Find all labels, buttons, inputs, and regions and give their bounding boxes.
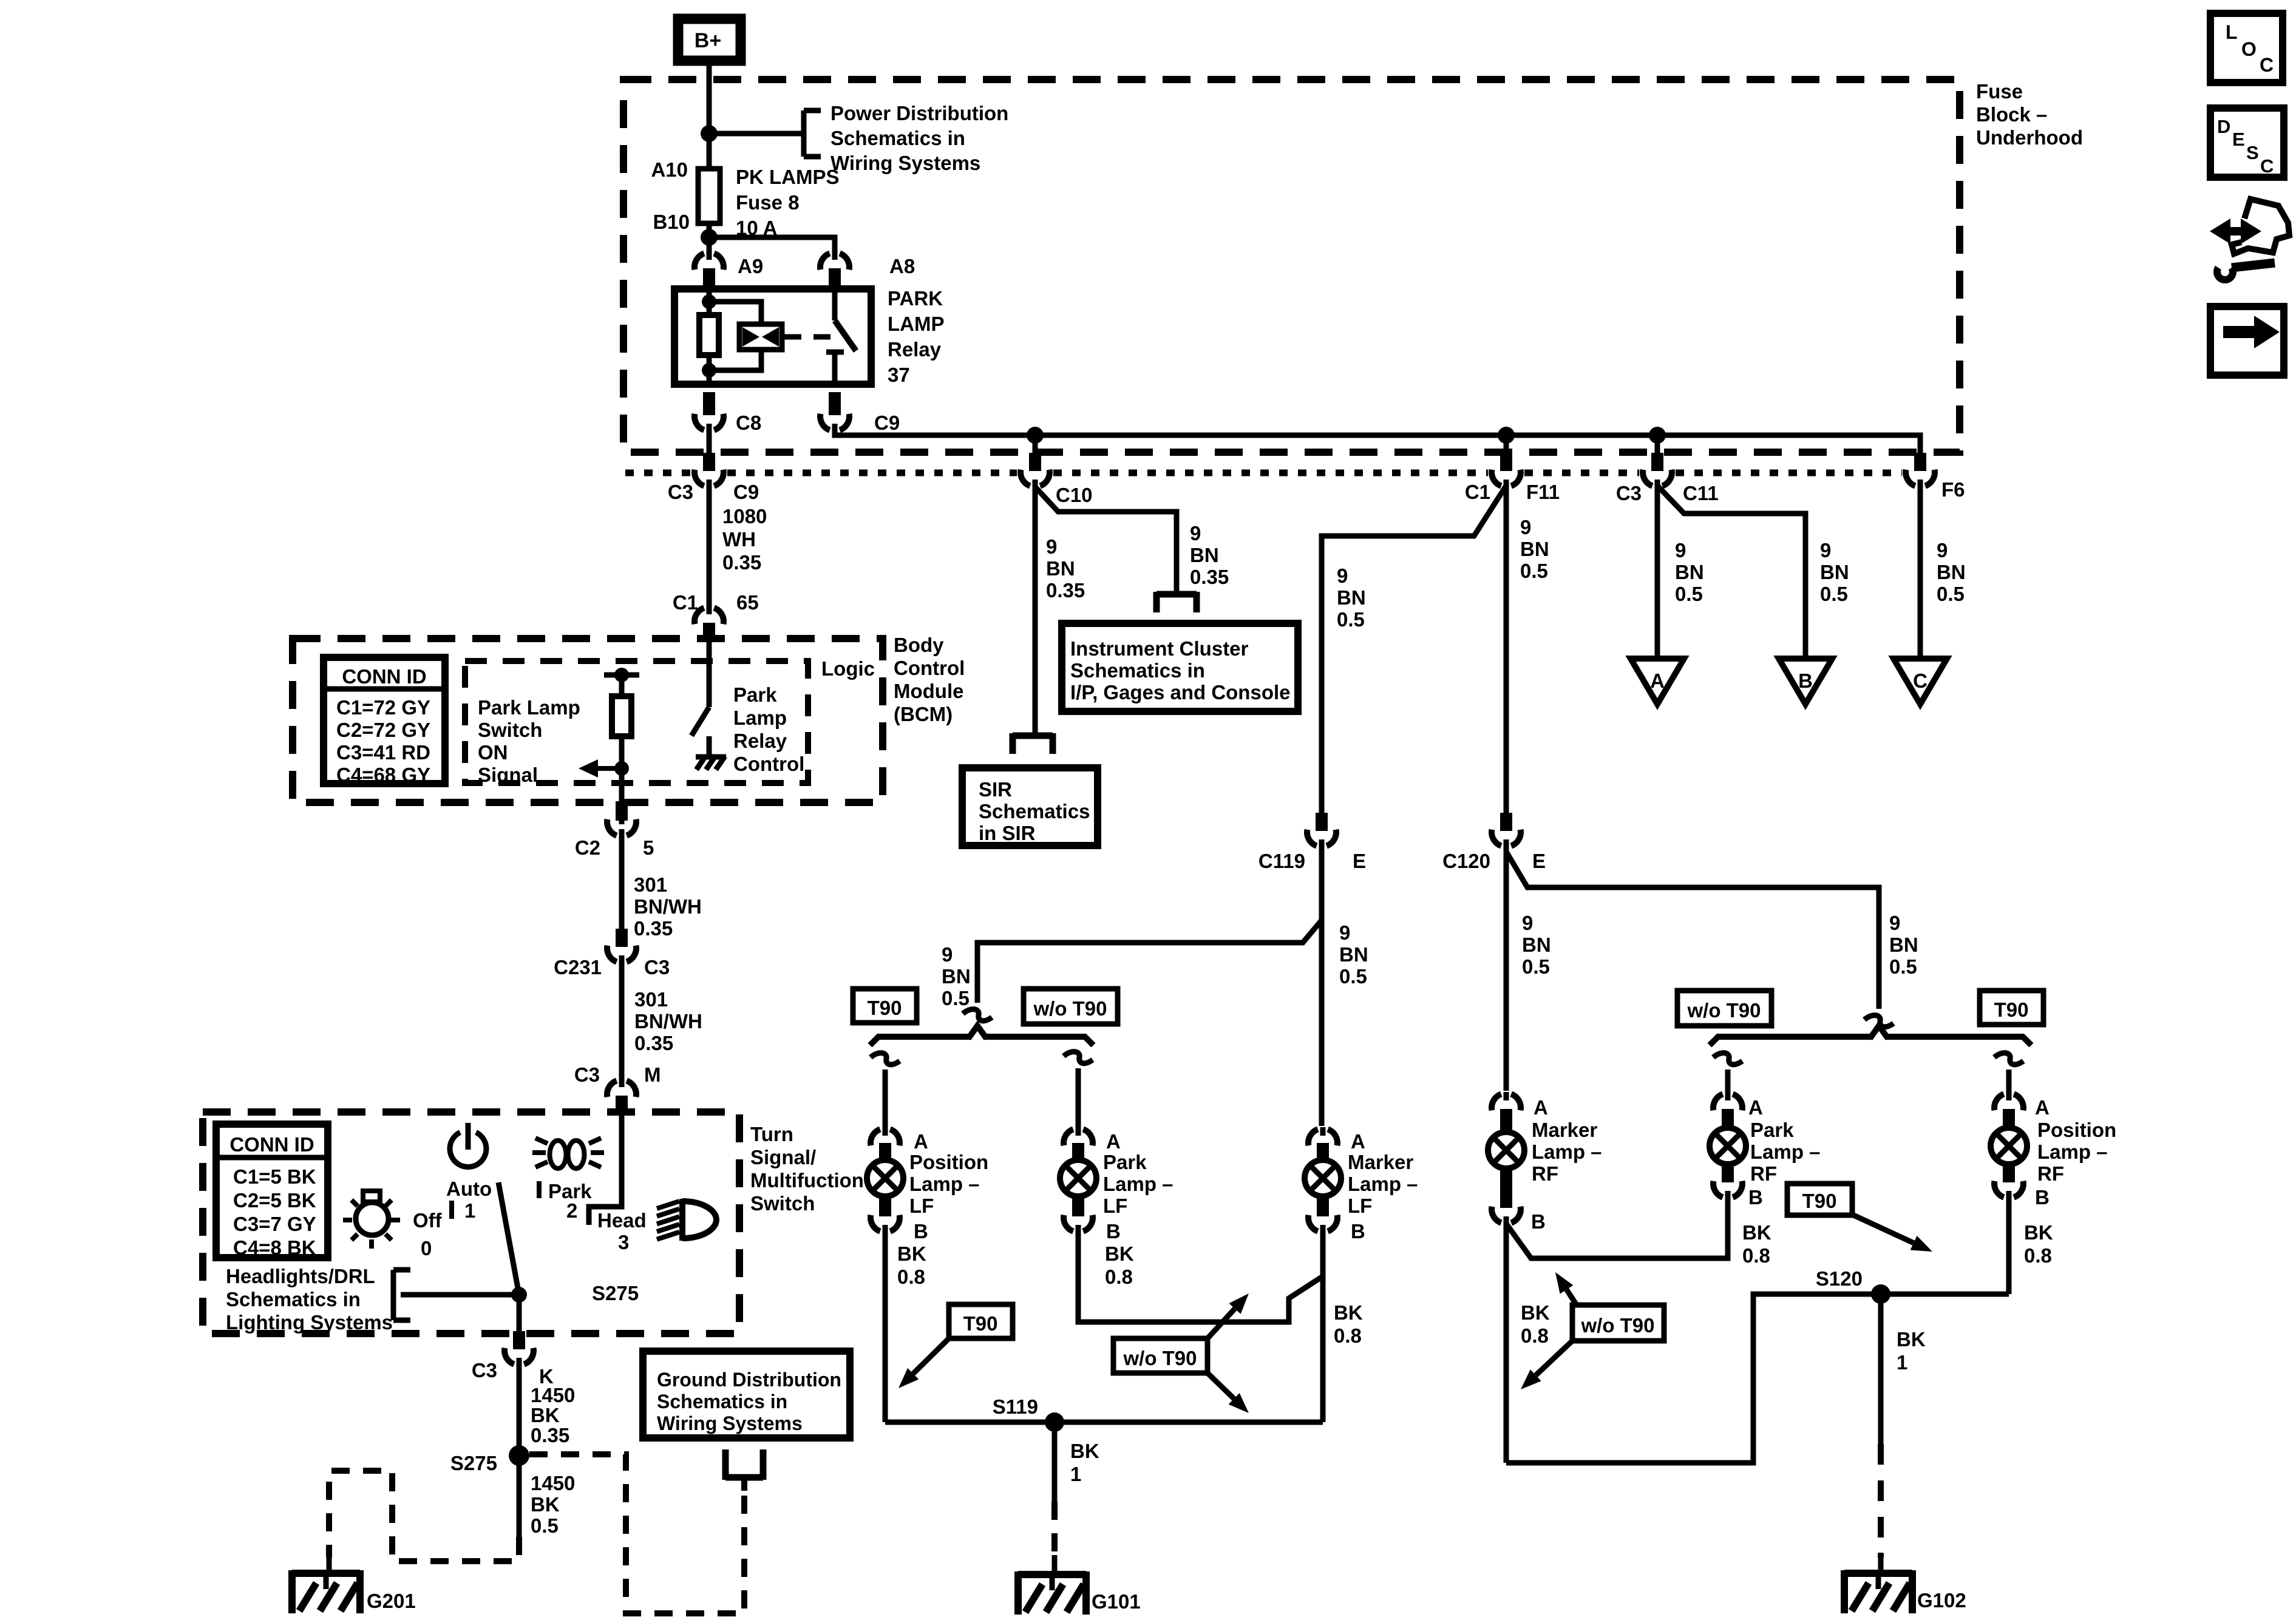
wire C11 to triangle B [1657, 486, 1805, 659]
connector park RF pin A [1713, 1094, 1723, 1110]
svg-text:C1: C1 [673, 591, 698, 614]
svg-text:A: A [1748, 1096, 1763, 1119]
fork to SIR box [1013, 733, 1053, 739]
svg-text:C3=41 RD: C3=41 RD [336, 741, 430, 764]
wire position RF to S120 [2006, 1198, 2012, 1294]
svg-text:T90: T90 [1802, 1190, 1837, 1212]
svg-text:B: B [2035, 1186, 2050, 1209]
svg-text:Headlights/DRL: Headlights/DRL [226, 1265, 375, 1287]
svg-text:A: A [1650, 670, 1665, 692]
connector C10 [1021, 470, 1030, 486]
svg-text:BN: BN [942, 965, 971, 988]
marker lamp LF [1317, 1143, 1329, 1164]
svg-text:BK: BK [1897, 1328, 1926, 1351]
relay coil [739, 324, 782, 350]
svg-text:9: 9 [942, 943, 953, 966]
LOC legend icon [2210, 13, 2283, 83]
node signal junction [614, 761, 629, 776]
svg-text:BK: BK [1105, 1242, 1134, 1265]
service manual hand icon [2230, 227, 2248, 236]
svg-text:Control: Control [894, 657, 965, 679]
svg-text:0.5: 0.5 [1522, 955, 1550, 978]
svg-text:Multifuction: Multifuction [750, 1169, 864, 1192]
svg-text:2: 2 [566, 1199, 577, 1222]
node relay coil top junction [702, 294, 716, 309]
svg-text:Module: Module [894, 680, 963, 702]
wire C120 to marker lamp RF [1504, 847, 1509, 1091]
connector pin C8 [695, 414, 704, 430]
svg-text:9: 9 [1190, 522, 1201, 544]
svg-text:B: B [1351, 1220, 1365, 1242]
svg-text:Switch: Switch [478, 719, 542, 741]
instrument cluster reference box [1062, 623, 1298, 711]
svg-text:BK: BK [1334, 1301, 1363, 1324]
fuse F8 PK LAMPS [698, 169, 720, 223]
svg-text:Lamp –: Lamp – [1750, 1141, 1821, 1163]
svg-text:in SIR: in SIR [979, 822, 1036, 844]
svg-text:C119: C119 [1258, 850, 1305, 872]
dashed wire to G101 [1051, 1502, 1058, 1560]
svg-text:Relay: Relay [888, 338, 942, 361]
battery feed B+ terminal [678, 19, 741, 61]
T90 pointer arrow right [1852, 1215, 1914, 1243]
T90 pointer box left [949, 1304, 1013, 1338]
ground G101 [1018, 1571, 1086, 1578]
wire F11 to C120 [1504, 486, 1509, 815]
svg-text:Relay: Relay [733, 730, 787, 752]
park lamp switch pull-up bar [604, 673, 639, 678]
position lamp RF [2003, 1111, 2015, 1131]
svg-text:1: 1 [464, 1199, 475, 1222]
svg-text:301: 301 [634, 988, 668, 1011]
wire to park lamp LF [1076, 1068, 1081, 1130]
connector park LF pin B [1064, 1215, 1073, 1232]
T90 pointer arrow left [913, 1338, 949, 1374]
svg-text:RF: RF [1750, 1162, 1777, 1185]
dashed wire to G102 [1878, 1444, 1884, 1558]
svg-text:C2=72 GY: C2=72 GY [336, 719, 430, 741]
svg-text:C3=7 GY: C3=7 GY [233, 1213, 316, 1235]
relay K37 box [674, 289, 871, 384]
svg-text:Turn: Turn [750, 1123, 793, 1145]
svg-text:LAMP: LAMP [888, 313, 945, 335]
option break squiggle park LF [1064, 1052, 1093, 1063]
svg-text:S120: S120 [1816, 1267, 1863, 1290]
svg-text:A: A [2035, 1096, 2050, 1119]
node bus junction C10 [1027, 427, 1044, 444]
svg-text:9: 9 [1337, 564, 1348, 587]
svg-text:C: C [2260, 54, 2274, 76]
w/o T90 pointer box right [1572, 1305, 1664, 1341]
wire marker RF loop to S120 bus [1506, 1294, 2009, 1463]
svg-text:E: E [2232, 129, 2245, 150]
svg-text:37: 37 [888, 364, 910, 386]
fork to instrument cluster box [1156, 591, 1197, 598]
splice S275 [509, 1445, 529, 1466]
svg-text:Lamp –: Lamp – [1348, 1173, 1418, 1195]
wire stub to G101 [1052, 1555, 1058, 1575]
svg-text:C1=5 BK: C1=5 BK [233, 1165, 316, 1188]
svg-text:0.8: 0.8 [1105, 1266, 1133, 1288]
svg-text:A: A [914, 1130, 928, 1153]
harness dotted boundary [625, 470, 691, 476]
svg-text:BK: BK [531, 1493, 560, 1516]
svg-text:BK: BK [531, 1404, 560, 1426]
svg-text:LF: LF [1103, 1195, 1127, 1217]
svg-text:Schematics: Schematics [979, 800, 1090, 822]
LF harness split brace [878, 1034, 970, 1040]
svg-text:Off: Off [413, 1209, 443, 1232]
switch blade S275 [498, 1182, 519, 1295]
BCM CONN ID table [324, 657, 445, 784]
svg-text:1: 1 [1070, 1463, 1081, 1485]
connector C3 pin K [504, 1348, 514, 1364]
wire C120 branch to RF lamps [1506, 852, 1879, 1009]
off-page triangle C [1894, 659, 1947, 704]
wire 1450 BK 0.35 [517, 1365, 522, 1459]
marker lamp RF [1500, 1115, 1512, 1136]
wire C3/C11 drop [1655, 435, 1660, 456]
wire 1080 WH to BCM [707, 486, 712, 609]
svg-text:E: E [1353, 850, 1366, 872]
BCM internal ground [696, 754, 726, 760]
svg-text:9: 9 [1820, 539, 1831, 561]
svg-text:C8: C8 [736, 412, 761, 434]
SIR reference box [962, 768, 1098, 846]
svg-text:Head: Head [597, 1209, 647, 1232]
node switch common junction [511, 1287, 527, 1303]
svg-text:0.5: 0.5 [1339, 965, 1367, 988]
svg-text:SIR: SIR [979, 778, 1012, 801]
wire park RF jog to marker RF [1506, 1198, 1728, 1258]
svg-text:0.5: 0.5 [1937, 583, 1965, 605]
svg-text:1450: 1450 [531, 1472, 575, 1494]
svg-text:BN: BN [1522, 934, 1551, 956]
svg-text:Schematics in: Schematics in [830, 127, 965, 149]
svg-text:Lighting Systems: Lighting Systems [226, 1311, 393, 1334]
svg-text:S119: S119 [993, 1395, 1038, 1418]
svg-text:B: B [1106, 1220, 1121, 1242]
option break squiggle above LF brace [963, 1009, 992, 1021]
relay actuator dashed link [784, 334, 833, 340]
wire C119 to marker lamp LF [1319, 847, 1325, 1126]
wire to park lamp RF [1725, 1070, 1731, 1097]
park lamp relay control switch [707, 642, 712, 707]
svg-text:Auto: Auto [446, 1178, 492, 1200]
svg-text:Park: Park [1103, 1151, 1147, 1173]
svg-text:CONN ID: CONN ID [342, 665, 426, 688]
svg-text:Position: Position [2037, 1119, 2116, 1141]
S119 ground bus [885, 1420, 1323, 1425]
svg-text:ON: ON [478, 741, 508, 764]
svg-text:w/o T90: w/o T90 [1580, 1314, 1654, 1337]
wire B+ down to fuse [707, 63, 712, 169]
wire 1450 BK 0.5 [517, 1456, 522, 1537]
connector position LF pin A [871, 1129, 880, 1145]
connector marker LF pin A [1308, 1129, 1318, 1145]
option break squiggle position LF [871, 1053, 900, 1065]
wire C1/F11 drop [1504, 435, 1509, 456]
auto power icon [450, 1133, 486, 1167]
svg-text:C3: C3 [668, 481, 693, 503]
connector C119 pin E [1307, 830, 1317, 846]
svg-text:BN: BN [1520, 538, 1549, 560]
svg-text:C: C [1913, 670, 1927, 692]
connector position LF pin B [871, 1215, 880, 1232]
svg-text:B+: B+ [695, 29, 721, 52]
w/o T90 option box left [1024, 989, 1118, 1024]
svg-text:Park: Park [1750, 1119, 1794, 1141]
svg-text:0.8: 0.8 [897, 1266, 925, 1288]
svg-text:B: B [914, 1220, 928, 1242]
connector C2 pin 5 [607, 819, 617, 836]
park lamp LF [1072, 1143, 1084, 1164]
svg-text:C4=68 GY: C4=68 GY [336, 764, 430, 786]
svg-text:C2=5 BK: C2=5 BK [233, 1189, 316, 1212]
wire F6 to triangle C [1918, 486, 1923, 659]
svg-text:(BCM): (BCM) [894, 703, 953, 725]
svg-text:Underhood: Underhood [1976, 126, 2083, 149]
connector C231/C3 [607, 946, 617, 962]
svg-text:S: S [2246, 142, 2259, 163]
wire resistor to signal node [619, 736, 625, 824]
svg-text:S275: S275 [450, 1452, 497, 1474]
svg-text:BK: BK [897, 1242, 926, 1265]
svg-text:A9: A9 [738, 255, 763, 277]
svg-text:Body: Body [894, 634, 944, 656]
wire to position lamp LF [883, 1070, 888, 1130]
svg-text:0.35: 0.35 [1046, 579, 1085, 602]
svg-text:C120: C120 [1442, 850, 1490, 872]
wire branch to relay switch side [709, 237, 835, 254]
off-page triangle B [1779, 659, 1832, 704]
svg-text:C3: C3 [574, 1063, 600, 1086]
w/o T90 option box right [1677, 991, 1771, 1026]
T90 pointer box right [1787, 1184, 1852, 1215]
svg-text:BN: BN [1339, 943, 1368, 966]
connector marker RF pin A [1492, 1094, 1501, 1110]
svg-text:0.8: 0.8 [1334, 1324, 1362, 1347]
wire park lamp feed bus [835, 431, 1920, 454]
svg-text:65: 65 [736, 591, 759, 614]
connector C3/C9 [695, 470, 704, 486]
svg-text:Ground Distribution: Ground Distribution [657, 1369, 841, 1391]
svg-text:Lamp –: Lamp – [1103, 1173, 1173, 1195]
svg-text:0: 0 [421, 1237, 432, 1259]
svg-text:0.5: 0.5 [1337, 608, 1365, 631]
svg-text:9: 9 [1889, 912, 1900, 934]
connector C1/F11 [1492, 470, 1501, 486]
svg-text:A: A [1106, 1130, 1121, 1153]
svg-text:WH: WH [722, 528, 756, 551]
svg-text:Position: Position [909, 1151, 988, 1173]
svg-text:0.5: 0.5 [1675, 583, 1703, 605]
wire S119 to G101 [1052, 1422, 1058, 1502]
wire stub to G201 [327, 1554, 332, 1573]
svg-text:BN: BN [1820, 561, 1849, 583]
node pull-up junction [614, 668, 629, 682]
svg-text:Control: Control [733, 753, 804, 775]
svg-text:A: A [1533, 1096, 1548, 1119]
park lamps icon [550, 1141, 566, 1168]
wire to sense resistor [619, 675, 625, 699]
connector park RF pin B [1713, 1181, 1723, 1198]
svg-text:1450: 1450 [531, 1384, 575, 1406]
svg-text:0.35: 0.35 [1190, 566, 1229, 588]
RF harness split brace [1717, 1034, 1872, 1040]
svg-text:T90: T90 [1994, 998, 2029, 1021]
svg-text:Lamp: Lamp [733, 707, 787, 729]
svg-text:BN: BN [1675, 561, 1704, 583]
w/o T90 pointer box left [1113, 1338, 1207, 1373]
dashed wire S275 to ground distribution [529, 1454, 744, 1613]
option break squiggle position RF [1994, 1053, 2023, 1065]
wire 301 BN/WH lower [619, 963, 625, 1082]
svg-text:Schematics in: Schematics in [657, 1391, 787, 1412]
svg-text:BN/WH: BN/WH [634, 1010, 702, 1032]
svg-text:E: E [1532, 850, 1546, 872]
node bus junction C1/F11 [1498, 427, 1515, 444]
BCM sense resistor [612, 696, 631, 736]
wire C10 to SIR schematics [1033, 486, 1038, 736]
svg-text:T90: T90 [963, 1312, 998, 1335]
svg-text:3: 3 [618, 1231, 629, 1253]
BCM dashed box [293, 639, 883, 802]
T90 option box right [1980, 991, 2043, 1025]
headlamp icon [682, 1201, 716, 1238]
svg-text:B: B [1798, 670, 1813, 692]
park lamp RF [1722, 1111, 1734, 1131]
wire S120 to G102 [1878, 1294, 1884, 1444]
svg-text:C1: C1 [1465, 481, 1490, 503]
power distribution bracket [801, 110, 807, 157]
svg-text:0.5: 0.5 [1820, 583, 1848, 605]
splice S120 [1871, 1284, 1890, 1304]
BCM logic dashed box [465, 661, 808, 783]
svg-text:B: B [1748, 1186, 1763, 1209]
svg-text:Marker: Marker [1532, 1119, 1597, 1141]
svg-text:9: 9 [1522, 912, 1533, 934]
svg-text:G102: G102 [1917, 1589, 1966, 1612]
svg-text:C2: C2 [575, 836, 600, 859]
svg-text:BN: BN [1046, 557, 1075, 580]
headlights DRL bracket [391, 1270, 396, 1320]
svg-text:0.8: 0.8 [2024, 1244, 2052, 1267]
wire to power distribution pointer [709, 131, 804, 137]
connector C120 pin E [1492, 830, 1501, 846]
svg-text:Signal: Signal [478, 764, 538, 786]
wire to position lamp RF [2006, 1070, 2012, 1097]
svg-text:w/o T90: w/o T90 [1686, 999, 1761, 1022]
connector marker LF pin B [1308, 1215, 1318, 1232]
svg-text:C9: C9 [874, 412, 900, 434]
svg-text:9: 9 [1937, 539, 1948, 561]
svg-text:G201: G201 [367, 1590, 416, 1612]
turn signal multifunction switch dashed box [203, 1112, 739, 1334]
wire marker LF ground [1320, 1232, 1326, 1422]
svg-text:0.8: 0.8 [1521, 1324, 1549, 1347]
svg-text:F11: F11 [1526, 481, 1560, 503]
next page arrow icon [2210, 307, 2284, 375]
svg-text:1: 1 [1897, 1351, 1907, 1374]
wire stub to G102 [1878, 1553, 1884, 1573]
DESC legend icon [2210, 108, 2284, 177]
svg-text:BK: BK [1521, 1301, 1550, 1324]
wire C8 down [707, 430, 712, 456]
svg-text:Park: Park [733, 683, 777, 706]
svg-text:Wiring Systems: Wiring Systems [830, 152, 980, 174]
relay internal resistor [699, 315, 719, 355]
wire fuse to relay [707, 223, 712, 254]
svg-text:BN: BN [1190, 544, 1219, 566]
label Park 2 [537, 1181, 542, 1198]
svg-text:LF: LF [909, 1195, 934, 1217]
wire coil loop top [709, 302, 761, 327]
svg-text:5: 5 [643, 836, 654, 859]
svg-text:C9: C9 [733, 481, 759, 503]
svg-text:C3: C3 [472, 1359, 497, 1381]
svg-text:C3: C3 [1616, 482, 1642, 504]
svg-text:C1=72 GY: C1=72 GY [336, 696, 430, 719]
svg-text:C3: C3 [644, 956, 670, 978]
svg-text:Lamp –: Lamp – [1532, 1141, 1602, 1163]
svg-text:Power Distribution: Power Distribution [830, 102, 1008, 124]
svg-text:BK: BK [1070, 1440, 1099, 1462]
svg-text:Schematics in: Schematics in [1070, 659, 1205, 682]
svg-text:w/o T90: w/o T90 [1033, 997, 1107, 1020]
svg-text:1080: 1080 [722, 505, 767, 527]
switch wire from C3/M to park contact [589, 1112, 622, 1225]
svg-text:B: B [1531, 1210, 1546, 1233]
svg-text:PK LAMPS: PK LAMPS [736, 166, 840, 188]
svg-text:CONN ID: CONN ID [229, 1133, 314, 1156]
ground distribution reference box [643, 1351, 850, 1438]
svg-text:0.5: 0.5 [531, 1514, 559, 1537]
svg-text:0.35: 0.35 [634, 917, 673, 940]
wire resistor to bottom junction [707, 355, 712, 384]
svg-text:Block –: Block – [1976, 103, 2047, 126]
svg-text:C231: C231 [554, 956, 602, 978]
wire C1/F11 to C119 [1322, 486, 1506, 815]
svg-text:Lamp –: Lamp – [2037, 1141, 2108, 1163]
svg-text:0.5: 0.5 [1520, 560, 1548, 582]
svg-text:0.35: 0.35 [634, 1032, 673, 1054]
option break squiggle above RF brace [1864, 1015, 1894, 1027]
svg-text:A10: A10 [651, 158, 688, 181]
svg-text:LF: LF [1348, 1195, 1372, 1217]
connector pin A9 [695, 253, 704, 269]
connector park LF pin A [1064, 1129, 1073, 1145]
headlamp off icon [356, 1202, 389, 1235]
ground G102 [1844, 1570, 1912, 1577]
svg-text:Park Lamp: Park Lamp [478, 696, 580, 719]
svg-text:BN: BN [1337, 586, 1366, 609]
svg-text:C10: C10 [1056, 484, 1093, 506]
svg-text:w/o T90: w/o T90 [1123, 1347, 1197, 1369]
svg-text:L: L [2226, 21, 2238, 43]
svg-text:Lamp –: Lamp – [909, 1173, 980, 1195]
svg-text:9: 9 [1675, 539, 1686, 561]
connector pin A8 [820, 253, 830, 269]
svg-text:Fuse 8: Fuse 8 [736, 191, 800, 214]
svg-text:Fuse: Fuse [1976, 80, 2023, 103]
node junction below fuse [701, 229, 718, 246]
ground distribution fork [725, 1474, 763, 1481]
connector position RF pin A [1994, 1094, 2004, 1110]
svg-text:A: A [1351, 1130, 1365, 1153]
T90 option box left [853, 989, 917, 1023]
svg-text:RF: RF [2037, 1162, 2064, 1185]
